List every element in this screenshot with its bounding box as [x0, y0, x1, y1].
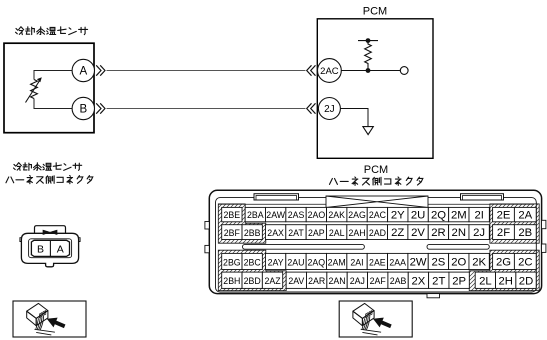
- pin 2V: [408, 225, 428, 240]
- pin 2G: [493, 253, 515, 269]
- pin 2E: [493, 207, 515, 221]
- top key tab right: [461, 194, 504, 200]
- connector chevrons at PCM side, wire A: [307, 65, 316, 75]
- pin 2J: [469, 225, 489, 240]
- pin 2Q: [428, 207, 448, 221]
- pin 2BA: [245, 207, 265, 221]
- svg-text:2BD: 2BD: [244, 276, 261, 286]
- pin 2Z: [388, 225, 408, 240]
- svg-text:2I: 2I: [474, 209, 483, 221]
- pin 2AS: [286, 207, 306, 221]
- svg-text:2AW: 2AW: [266, 210, 285, 220]
- svg-text:2D: 2D: [519, 276, 533, 288]
- svg-text:2AR: 2AR: [308, 276, 325, 286]
- svg-text:2Y: 2Y: [391, 209, 405, 221]
- svg-text:2AL: 2AL: [329, 228, 345, 238]
- power rail stub: [358, 40, 378, 42]
- pin 2BD: [242, 272, 262, 288]
- pin 2AB: [388, 272, 408, 288]
- svg-text:2C: 2C: [518, 257, 532, 269]
- node dot on power rail: [366, 38, 371, 43]
- svg-text:2BC: 2BC: [244, 257, 262, 267]
- svg-text:2T: 2T: [432, 276, 445, 288]
- hatched guide region top-left: [218, 204, 265, 243]
- pin 2C: [514, 253, 536, 269]
- svg-text:2G: 2G: [496, 257, 511, 269]
- hatched guide region bottom-left: [218, 250, 286, 290]
- pin 2AD: [367, 225, 387, 240]
- svg-text:2AK: 2AK: [328, 210, 345, 220]
- pin 2R: [428, 225, 448, 240]
- middle slot bar left: [243, 244, 365, 249]
- svg-text:2AB: 2AB: [390, 276, 407, 286]
- svg-text:A: A: [79, 66, 87, 78]
- PCM box: [317, 19, 433, 159]
- right side notch upper: [542, 220, 546, 228]
- pin 2AT: [286, 225, 306, 240]
- sensor harness connector (2-pin, face view): [20, 226, 80, 267]
- pin 2AC: [367, 207, 387, 221]
- connector chevrons at sensor side, wire B: [96, 103, 105, 113]
- connector chevrons at PCM side, wire B: [307, 103, 316, 113]
- view icon: sensor connector viewing direction: [13, 301, 86, 337]
- svg-text:2H: 2H: [498, 276, 512, 288]
- svg-text:B: B: [37, 243, 44, 255]
- svg-text:2K: 2K: [472, 257, 486, 269]
- cell area top line: [218, 203, 534, 205]
- svg-text:2AU: 2AU: [287, 257, 304, 267]
- svg-text:2AX: 2AX: [267, 228, 284, 238]
- hatched guide region bottom-right: [469, 250, 539, 290]
- crossed keying box: [326, 196, 428, 208]
- top key tab left: [254, 194, 299, 200]
- pin 2BG: [222, 253, 242, 269]
- ground symbol: [363, 127, 373, 135]
- pin 2T: [429, 272, 449, 288]
- svg-text:2AI: 2AI: [350, 257, 363, 267]
- hatched guide region top-right: [490, 204, 539, 243]
- svg-text:2R: 2R: [431, 227, 445, 239]
- pin 2F: [493, 225, 515, 240]
- pin 2AV: [286, 272, 306, 288]
- pin 2BH: [222, 272, 242, 288]
- thermistor RT (variable resistor symbol): [31, 80, 38, 99]
- svg-text:A: A: [57, 243, 64, 255]
- pin 2D: [516, 272, 536, 288]
- left side notch upper: [205, 222, 209, 230]
- svg-text:2AE: 2AE: [369, 257, 386, 267]
- pin 2AL: [327, 225, 347, 240]
- svg-text:2Z: 2Z: [391, 227, 404, 239]
- pin 2AO: [306, 207, 326, 221]
- svg-text:2AF: 2AF: [370, 276, 387, 286]
- svg-text:2BF: 2BF: [224, 228, 241, 238]
- pin 2AM: [327, 253, 347, 269]
- svg-text:2U: 2U: [411, 209, 425, 221]
- svg-text:2X: 2X: [412, 276, 426, 288]
- svg-text:2AH: 2AH: [348, 228, 365, 238]
- label 冷却水温センサ (coolant water temp sensor): [16, 27, 88, 35]
- pin 2AC: [318, 59, 342, 83]
- svg-text:2BH: 2BH: [223, 276, 240, 286]
- svg-text:B: B: [79, 104, 87, 116]
- svg-text:2AG: 2AG: [348, 210, 366, 220]
- svg-text:2A: 2A: [518, 209, 532, 221]
- wire B: sensor B to PCM 2J: [107, 108, 306, 110]
- pin 2AP: [306, 225, 326, 240]
- pin 2AG: [347, 207, 367, 221]
- svg-text:2F: 2F: [497, 227, 510, 239]
- open terminal (to A/D input): [400, 67, 408, 75]
- svg-text:2AN: 2AN: [328, 276, 345, 286]
- pin 2AW: [266, 207, 286, 221]
- right side notch lower: [542, 244, 546, 252]
- wire: thermistor to terminal A: [34, 71, 72, 80]
- svg-text:2AM: 2AM: [328, 257, 346, 267]
- terminal A: [72, 59, 94, 81]
- pin 2M: [449, 207, 469, 221]
- svg-text:2BG: 2BG: [223, 257, 241, 267]
- svg-text:2W: 2W: [410, 257, 427, 269]
- svg-text:2Q: 2Q: [431, 209, 446, 221]
- pin 2A: [514, 207, 536, 221]
- svg-text:2AP: 2AP: [308, 228, 325, 238]
- PCM harness connector outer shell: [209, 190, 541, 293]
- pin 2N: [449, 225, 469, 240]
- wire: thermistor to terminal B: [34, 99, 72, 109]
- svg-text:2J: 2J: [324, 104, 335, 115]
- svg-text:2AJ: 2AJ: [350, 276, 365, 286]
- svg-text:2BB: 2BB: [244, 228, 261, 238]
- pin 2X: [408, 272, 428, 288]
- wire: 2J to ground: [340, 109, 368, 127]
- pin 2I: [469, 207, 489, 221]
- pin 2O: [449, 253, 469, 269]
- pin 2AN: [327, 272, 347, 288]
- svg-text:2S: 2S: [432, 257, 446, 269]
- svg-text:2M: 2M: [451, 209, 467, 221]
- label 冷却水温センサ (sensor harness connector line1): [13, 163, 81, 171]
- left side notch lower: [205, 245, 209, 252]
- junction dot at 2AC node: [366, 68, 371, 73]
- label ハーネス側コネクタ (sensor harness connector line2): [6, 175, 93, 183]
- svg-text:2P: 2P: [452, 276, 466, 288]
- svg-text:2AQ: 2AQ: [308, 257, 326, 267]
- pin 2S: [428, 253, 448, 269]
- pin 2AI: [347, 253, 367, 269]
- wire A: sensor A to PCM 2AC: [107, 70, 306, 72]
- svg-text:2AZ: 2AZ: [264, 276, 281, 286]
- svg-text:2AT: 2AT: [288, 228, 304, 238]
- pin 2AK: [327, 207, 347, 221]
- pin 2U: [408, 207, 428, 221]
- pin 2AZ: [262, 272, 282, 288]
- bottom latch tab: [427, 294, 440, 298]
- view icon: PCM connector viewing direction: [339, 301, 412, 337]
- svg-text:2AD: 2AD: [369, 228, 386, 238]
- svg-text:2AV: 2AV: [288, 276, 304, 286]
- sensor box (coolant temp sensor): [4, 43, 94, 133]
- svg-text:2L: 2L: [479, 276, 492, 288]
- svg-text:2O: 2O: [451, 257, 466, 269]
- svg-text:2AC: 2AC: [369, 210, 387, 220]
- svg-text:PCM: PCM: [364, 164, 388, 176]
- pin 2BC: [242, 253, 262, 269]
- pin 2L: [475, 272, 495, 288]
- svg-text:2BA: 2BA: [247, 210, 264, 220]
- pin 2AY: [265, 253, 285, 269]
- pin 2K: [469, 253, 489, 269]
- middle slot bar right: [427, 244, 489, 249]
- pull-up resistor R (zigzag): [365, 41, 372, 71]
- PCM connector inner shell: [216, 198, 537, 292]
- svg-text:2AC: 2AC: [320, 66, 339, 77]
- pin 2AE: [367, 253, 387, 269]
- svg-text:2V: 2V: [411, 227, 425, 239]
- svg-text:2AO: 2AO: [308, 210, 326, 220]
- pin 2AH: [347, 225, 367, 240]
- pin 2H: [496, 272, 516, 288]
- pin 2AR: [307, 272, 327, 288]
- pin 2BF: [222, 225, 242, 240]
- svg-text:PCM: PCM: [363, 6, 387, 18]
- svg-text:2B: 2B: [518, 227, 532, 239]
- pin 2BE: [222, 207, 242, 221]
- pin 2BB: [242, 225, 262, 240]
- pin 2AJ: [347, 272, 367, 288]
- pin 2AA: [388, 253, 408, 269]
- pin 2AU: [286, 253, 306, 269]
- svg-text:2AA: 2AA: [389, 257, 406, 267]
- pin cell divider: [49, 240, 51, 256]
- pin 2AF: [368, 272, 388, 288]
- svg-text:2E: 2E: [497, 209, 511, 221]
- pin 2Y: [388, 207, 408, 221]
- svg-text:2AY: 2AY: [268, 257, 284, 267]
- pin 2P: [449, 272, 469, 288]
- connector chevrons at sensor side, wire A: [96, 65, 105, 75]
- pin 2B: [514, 225, 536, 240]
- label ハーネス側コネクタ (PCM harness connector): [329, 177, 422, 185]
- pin 2AX: [265, 225, 285, 240]
- svg-text:2AS: 2AS: [288, 210, 305, 220]
- terminal B: [72, 97, 94, 119]
- wire: 2AC to junction and output terminal: [341, 70, 400, 72]
- svg-text:2J: 2J: [473, 227, 485, 239]
- svg-text:2N: 2N: [452, 227, 466, 239]
- svg-text:2BE: 2BE: [224, 210, 241, 220]
- pin 2AQ: [306, 253, 326, 269]
- pin 2W: [408, 253, 428, 269]
- pin 2J: [318, 98, 340, 120]
